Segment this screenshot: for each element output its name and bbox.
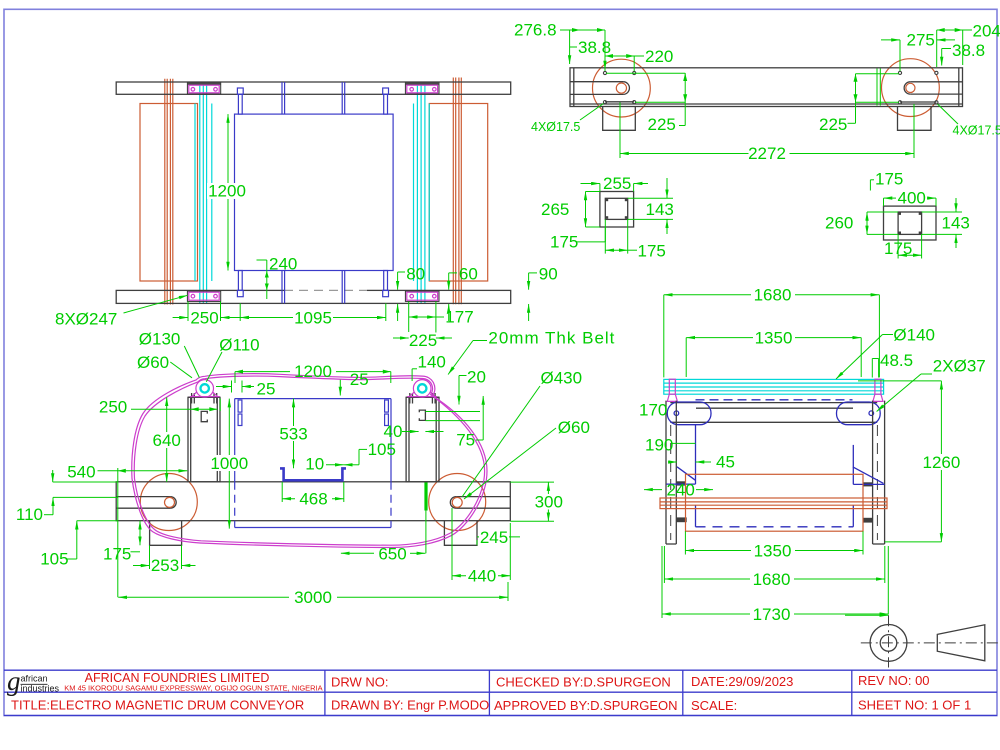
dimension 175 left <box>103 521 140 564</box>
svg-text:1350: 1350 <box>754 542 792 561</box>
dimension 105 mid leader <box>344 440 396 465</box>
svg-text:1730: 1730 <box>753 605 791 624</box>
belt outer line <box>132 374 487 548</box>
svg-text:190: 190 <box>645 436 673 455</box>
dimension 250 leader <box>99 398 220 417</box>
svg-text:275: 275 <box>907 31 935 50</box>
drum circle right (orange) <box>882 59 940 117</box>
blue stubs at box top-right <box>385 400 389 426</box>
leg right <box>898 107 932 130</box>
svg-text:REV NO: 00: REV NO: 00 <box>858 673 930 688</box>
svg-text:3000: 3000 <box>294 588 332 607</box>
svg-text:260: 260 <box>825 214 853 233</box>
section1 inner square <box>605 198 627 219</box>
dimension 240 (plan) <box>257 255 298 300</box>
svg-text:250: 250 <box>99 398 127 417</box>
dimension 3000 <box>118 582 508 607</box>
svg-text:DATE:29/09/2023: DATE:29/09/2023 <box>691 674 793 689</box>
roller cap left (navy) <box>667 402 711 425</box>
dimension 25 second <box>340 370 368 396</box>
svg-text:175: 175 <box>875 170 903 189</box>
dimension 10 <box>305 455 344 474</box>
svg-text:38.8: 38.8 <box>578 38 611 57</box>
label 20mm Thk Belt with leader <box>448 329 615 375</box>
beam slot right <box>450 497 510 509</box>
TITLEBLOCK <box>4 666 997 716</box>
svg-text:Ø430: Ø430 <box>541 369 583 388</box>
svg-text:400: 400 <box>898 188 926 207</box>
svg-text:90: 90 <box>539 265 558 284</box>
dimension 140 label <box>412 353 446 382</box>
dimension 640 <box>151 397 183 482</box>
pulley left <box>190 380 220 398</box>
svg-text:20: 20 <box>467 368 486 387</box>
label 2XO37 with leader <box>877 357 986 412</box>
top rail <box>116 82 511 94</box>
label 4X017.5 left <box>531 104 604 135</box>
label O60 with leader <box>137 353 192 378</box>
svg-text:TITLE:ELECTRO MAGNETIC DRUM CO: TITLE:ELECTRO MAGNETIC DRUM CONVEYOR <box>11 698 304 713</box>
dimension 110 <box>16 470 53 524</box>
slot left <box>570 82 629 95</box>
svg-text:440: 440 <box>468 567 496 586</box>
extension lines left side <box>53 468 118 597</box>
orange frame rect right <box>429 104 487 282</box>
weld bracket E left <box>201 411 207 421</box>
belt inner line <box>134 376 484 545</box>
beam outline <box>570 68 963 107</box>
blue stub bottom-right with cap <box>383 271 389 297</box>
dimension 400 <box>884 188 937 207</box>
beam inner bottom line <box>570 103 963 105</box>
dimension 1680 bottom <box>664 546 884 589</box>
pulley right <box>407 380 437 398</box>
svg-text:640: 640 <box>153 431 181 450</box>
orange strip left (double bars) <box>165 79 173 305</box>
svg-text:SCALE:: SCALE: <box>691 698 737 713</box>
dimension 255 <box>581 174 668 193</box>
svg-text:DRW NO:: DRW NO: <box>331 675 389 690</box>
svg-text:75: 75 <box>456 431 475 450</box>
beam slot left <box>116 497 176 509</box>
bottom rail <box>116 290 511 303</box>
svg-text:25: 25 <box>350 370 369 389</box>
line between bottom holes left <box>605 101 634 103</box>
svg-text:1260: 1260 <box>922 453 960 472</box>
roller cap left hole <box>674 411 679 416</box>
svg-text:80: 80 <box>406 265 425 284</box>
dimension 204 <box>937 22 1000 68</box>
SECTION VIEW 2 (400x260) <box>825 170 970 259</box>
dimension 250 (plan) <box>173 302 241 328</box>
PLAN VIEW (top-left) <box>55 78 558 350</box>
bearing block top-left <box>187 83 220 94</box>
roller cap right (navy) <box>837 402 881 425</box>
label O430 with leader <box>462 369 582 498</box>
leg left <box>603 107 636 130</box>
slot left orange circle <box>616 83 626 93</box>
svg-text:225: 225 <box>819 115 847 134</box>
END VIEW (bottom-right) <box>639 286 986 625</box>
dimension 105 left <box>40 521 77 569</box>
SECTION VIEW 1 (255x265) <box>541 174 674 261</box>
svg-text:Ø110: Ø110 <box>219 336 259 355</box>
label O130 with leader <box>139 330 200 378</box>
slot right orange circle <box>452 497 462 507</box>
post right top ticks <box>410 393 435 404</box>
projection symbol outer circle <box>870 625 907 662</box>
svg-text:1200: 1200 <box>208 182 246 201</box>
dimension 8XO247 leader <box>55 295 188 328</box>
section2 corner dots <box>898 212 921 234</box>
slot right <box>904 82 962 94</box>
dimension 1730 <box>662 546 888 624</box>
svg-text:4XØ17.5: 4XØ17.5 <box>531 120 580 134</box>
leg left <box>150 521 182 546</box>
beam inner left line <box>573 68 575 107</box>
blue stub top-right with cap <box>383 88 389 114</box>
section2 inner square <box>898 212 922 234</box>
navy lower verticals and hidden bottom <box>696 505 854 527</box>
dimension 540 <box>67 463 187 482</box>
svg-text:143: 143 <box>942 214 970 233</box>
title block grid lines <box>4 670 997 715</box>
dimension 650 <box>341 545 426 564</box>
svg-text:Ø140: Ø140 <box>893 326 935 345</box>
svg-text:60: 60 <box>459 265 478 284</box>
svg-text:45: 45 <box>716 453 735 472</box>
svg-text:540: 540 <box>67 463 95 482</box>
dimension 1350 top <box>686 329 861 378</box>
svg-text:industries: industries <box>21 684 60 694</box>
dimension 177 (plan) <box>409 302 474 333</box>
post right <box>406 397 439 482</box>
green leader to projection symbol <box>845 614 888 616</box>
svg-text:20mm Thk Belt: 20mm Thk Belt <box>488 329 615 348</box>
magnet box (side, partially hidden) <box>235 399 391 528</box>
green extension pair in beam <box>877 69 880 106</box>
projection symbol cone <box>937 625 985 661</box>
svg-text:300: 300 <box>535 493 563 512</box>
dimension 60 (plan) <box>449 265 478 321</box>
blue cross verticals top <box>282 82 345 114</box>
dimension 245 <box>477 528 520 547</box>
magenta belt edge right <box>873 379 883 401</box>
dimension 75 <box>425 396 483 450</box>
svg-text:105: 105 <box>368 440 396 459</box>
dimension 225 (plan) <box>393 331 452 350</box>
svg-text:265: 265 <box>541 200 569 219</box>
leg right <box>444 521 477 546</box>
svg-text:1095: 1095 <box>294 309 332 328</box>
dimension 1680 top <box>664 286 880 378</box>
slot left orange circle <box>165 497 175 507</box>
svg-text:1350: 1350 <box>755 329 793 348</box>
side plate right <box>873 401 885 544</box>
dimension 25 first <box>216 380 275 399</box>
svg-text:SHEET NO: 1 OF 1: SHEET NO: 1 OF 1 <box>858 698 971 713</box>
svg-text:175: 175 <box>550 233 578 252</box>
svg-text:140: 140 <box>418 353 446 372</box>
dimension 175 label (section1 left) <box>550 227 605 252</box>
svg-text:4XØ17.5: 4XØ17.5 <box>953 124 1000 138</box>
dimension 175 bottom (section1) <box>605 219 666 260</box>
svg-text:38.8: 38.8 <box>952 41 985 60</box>
svg-text:1680: 1680 <box>753 570 791 589</box>
shaft band orange <box>660 498 887 509</box>
PROJECTION SYMBOL <box>845 598 999 668</box>
svg-text:105: 105 <box>40 550 68 569</box>
dimension 276.8 <box>514 21 605 72</box>
gusset left (navy) <box>666 425 695 484</box>
blue stub top-left with cap <box>237 88 243 114</box>
label O60 right with leader <box>464 418 590 499</box>
dimension 533 <box>277 399 310 469</box>
svg-text:240: 240 <box>667 481 695 500</box>
magenta belt edge left <box>667 379 677 401</box>
svg-text:2XØ37: 2XØ37 <box>933 357 986 376</box>
dimension 265 <box>541 192 600 228</box>
post left <box>188 397 220 482</box>
svg-text:245: 245 <box>480 528 508 547</box>
dimension 143 (section1) <box>628 183 674 234</box>
svg-text:220: 220 <box>645 47 673 66</box>
svg-text:CHECKED BY:D.SPURGEON: CHECKED BY:D.SPURGEON <box>496 675 671 690</box>
svg-text:250: 250 <box>190 309 218 328</box>
bolt holes left <box>603 71 635 103</box>
drum circle right orange <box>429 474 486 531</box>
gusset right (navy) <box>853 445 885 485</box>
dimension 175 bottom (section2) <box>884 234 922 258</box>
BEAM SIDE VIEW (top-right) <box>514 21 1000 164</box>
dimension 1200 (plan vertical) <box>207 114 248 270</box>
blue channel at box bottom <box>280 468 346 480</box>
svg-text:253: 253 <box>151 556 179 575</box>
svg-text:1200: 1200 <box>294 362 332 381</box>
svg-text:468: 468 <box>299 490 327 509</box>
svg-text:177: 177 <box>445 308 473 327</box>
dimension 1000 <box>210 399 249 529</box>
dimension 225 left (beam) <box>606 73 687 134</box>
drum rect orange <box>686 474 864 531</box>
svg-text:g: g <box>7 666 21 696</box>
dimension 1200 (belt top) <box>235 362 391 383</box>
top roller bar <box>670 403 877 423</box>
svg-text:8XØ247: 8XØ247 <box>55 310 117 329</box>
bearing block bottom-right <box>405 291 439 301</box>
cyan top pulley drum <box>664 379 884 394</box>
bearing block bottom-left <box>187 291 220 301</box>
svg-text:48.5: 48.5 <box>880 351 913 370</box>
navy hidden dash above roller <box>696 399 853 401</box>
svg-text:175: 175 <box>103 545 131 564</box>
post left top ticks <box>192 393 217 404</box>
svg-text:240: 240 <box>269 255 297 274</box>
label 170 <box>639 401 667 420</box>
hidden dash on bottom rail top edge <box>284 290 367 292</box>
bearing block top-right <box>405 83 439 94</box>
svg-text:1000: 1000 <box>210 454 248 473</box>
projection symbol horizontal centerline <box>861 642 999 644</box>
blue stub bottom-left with cap <box>237 271 243 297</box>
dimension 1260 <box>858 381 963 542</box>
svg-text:2272: 2272 <box>748 144 786 163</box>
dimension 40 <box>384 422 444 441</box>
dimension 260 <box>825 212 898 234</box>
SIDE ELEVATION VIEW (bottom-left) <box>16 329 616 608</box>
svg-text:APPROVED BY:D.SPURGEON: APPROVED BY:D.SPURGEON <box>494 698 678 713</box>
svg-text:225: 225 <box>648 115 676 134</box>
drum circle left orange <box>140 474 197 531</box>
svg-text:Ø130: Ø130 <box>139 330 181 349</box>
orange frame rect left <box>140 104 198 282</box>
drum circle left (orange) <box>593 59 651 117</box>
label 4X017.5 right <box>938 104 1000 138</box>
blue stubs at box top-left <box>238 400 242 426</box>
weld bracket E right <box>419 410 425 420</box>
dimension 240 (end view) <box>644 481 713 500</box>
cyan idler lines right <box>414 82 430 303</box>
slot right orange circle <box>906 83 915 92</box>
blue cross verticals bottom <box>282 271 345 304</box>
dimension 253 <box>133 545 196 575</box>
dimension 1095 (plan) <box>240 303 386 327</box>
plate weld notches right <box>863 482 873 522</box>
dimension 38.8 right <box>942 41 985 66</box>
cyan idler lines left <box>195 82 212 303</box>
svg-text:650: 650 <box>378 545 406 564</box>
svg-text:276.8: 276.8 <box>514 21 557 40</box>
svg-text:1680: 1680 <box>754 286 792 305</box>
svg-text:204: 204 <box>973 22 1000 41</box>
svg-text:110: 110 <box>16 505 43 524</box>
svg-text:DRAWN BY: Engr P.MODO: DRAWN BY: Engr P.MODO <box>331 698 489 713</box>
svg-text:143: 143 <box>646 200 674 219</box>
svg-text:25: 25 <box>257 380 276 399</box>
roller cap right hole <box>869 411 874 416</box>
label 190 <box>645 436 696 455</box>
section2 outer rect <box>884 206 937 240</box>
svg-text:170: 170 <box>639 401 667 420</box>
label O110 with leader <box>206 336 259 382</box>
dimension 143 (section2) <box>922 198 970 248</box>
section1 corner dots <box>606 199 628 219</box>
svg-text:KM 45 IKORODU SAGAMU EXPRESSWA: KM 45 IKORODU SAGAMU EXPRESSWAY, OGIJO O… <box>64 683 322 692</box>
svg-text:40: 40 <box>384 422 403 441</box>
dimension 275 <box>881 31 955 72</box>
dimension 48.5 <box>872 351 913 378</box>
svg-text:175: 175 <box>638 242 666 261</box>
beam body <box>116 482 510 521</box>
svg-text:533: 533 <box>279 425 307 444</box>
orange strip right (double bars) <box>453 78 461 305</box>
dimension 220 <box>605 47 673 71</box>
label O140 with leader <box>836 326 935 380</box>
projection symbol inner circle <box>880 635 897 652</box>
dimension 468 <box>282 482 344 509</box>
dimension 80 (plan) <box>398 265 426 322</box>
dimension 2272 <box>620 103 914 164</box>
svg-text:african: african <box>21 674 48 684</box>
dimension 1350 bottom <box>685 531 863 560</box>
dimension 90 (plan) <box>529 265 558 321</box>
section1 outer square <box>600 192 634 228</box>
green thick extension pair <box>424 482 427 553</box>
plate weld notches left <box>676 481 686 522</box>
dimension 38.8 left <box>570 38 611 70</box>
svg-text:225: 225 <box>409 331 437 350</box>
dimension 300 <box>510 482 564 521</box>
projection symbol vertical centerline <box>888 615 890 667</box>
dimension 175 top-left (section2) <box>870 170 903 191</box>
svg-text:10: 10 <box>305 455 324 474</box>
dimension 440 <box>452 508 510 586</box>
svg-text:255: 255 <box>603 174 631 193</box>
dimension 20 label <box>459 368 486 405</box>
svg-text:Ø60: Ø60 <box>137 353 169 372</box>
svg-text:Ø60: Ø60 <box>558 418 590 437</box>
dimension 45 <box>668 453 735 472</box>
bolt holes right <box>898 71 938 104</box>
magnet box (plan) <box>235 114 394 270</box>
line between bottom holes right <box>900 101 936 103</box>
dimension 225 right (beam) <box>819 74 899 134</box>
beam inner right line <box>958 68 960 107</box>
side plate left <box>666 401 676 544</box>
